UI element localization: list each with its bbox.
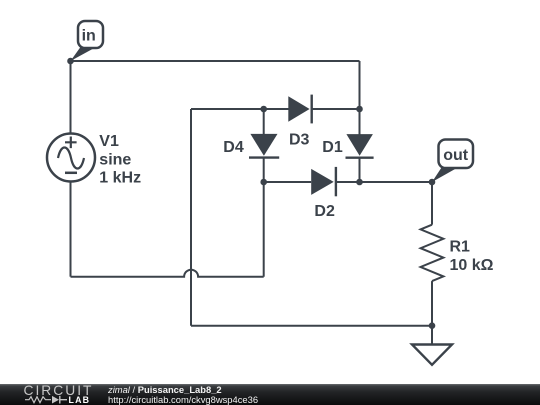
svg-text:1 kHz: 1 kHz <box>99 170 141 187</box>
svg-text:D2: D2 <box>314 203 335 220</box>
svg-text:D3: D3 <box>289 131 310 148</box>
svg-text:D1: D1 <box>322 139 343 156</box>
svg-text:10 kΩ: 10 kΩ <box>450 257 494 274</box>
svg-text:in: in <box>82 28 96 45</box>
svg-text:V1: V1 <box>99 133 119 150</box>
svg-text:D4: D4 <box>223 139 244 156</box>
svg-text:sine: sine <box>99 151 131 168</box>
svg-text:out: out <box>443 147 469 164</box>
svg-text:LAB: LAB <box>69 395 91 405</box>
svg-text:R1: R1 <box>450 239 471 256</box>
